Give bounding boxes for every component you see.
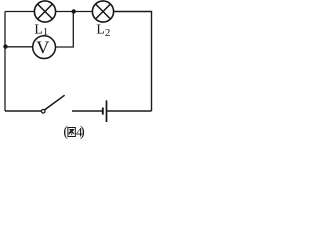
lamp L2 [92,1,113,22]
wire: voltmeter to riser up to junction A [56,12,74,48]
wire: lamp L2 to top-right corner, down right rail to bottom-right corner [114,12,152,112]
wire: bottom-right corner to battery positive plate [107,110,152,112]
svg-text:): ) [80,124,85,140]
junction node A [72,9,76,13]
lamp L1 [34,1,55,22]
wire: top-left corner to lamp L1 [5,11,35,13]
wire: left rail [4,12,6,112]
wire: bottom-left corner to switch pivot [5,110,41,112]
wire: lamp L1 to junction A [56,11,74,13]
svg-text:L2: L2 [96,22,110,39]
wire: junction B to voltmeter [6,46,33,48]
battery long (positive) plate [106,100,108,122]
hand-drawn CJK character 图 (figure) [68,128,75,137]
wire: junction A to lamp L2 [74,11,93,13]
wire: battery to switch gap [72,110,102,112]
switch pivot terminal [41,110,45,114]
svg-text:V: V [36,37,49,57]
voltmeter V [33,36,56,59]
switch blade (open) [45,95,65,110]
caption (图4) [63,124,85,140]
battery short (negative) plate [102,108,104,115]
junction node B on left rail [3,44,7,48]
